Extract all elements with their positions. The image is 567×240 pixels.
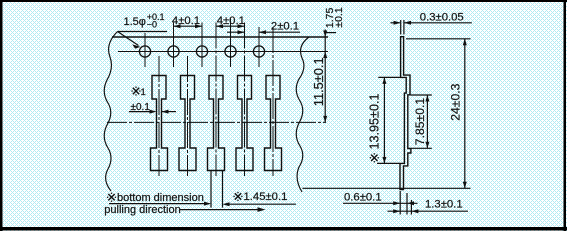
hole H3 vertical centerline (201, 23, 203, 68)
sprocket hole H3 (196, 46, 207, 57)
leader line for hole diameter 1.5φ (118, 31, 168, 33)
svg-text:11.5±0.1: 11.5±0.1 (311, 57, 326, 106)
terminal T5 vertical centerline (272, 27, 274, 176)
svg-text:13.95±0.1: 13.95±0.1 (367, 94, 381, 150)
svg-text:0.6±0.1: 0.6±0.1 (344, 191, 382, 203)
leader of 1.45±0.1 label (225, 203, 296, 205)
right dimension stack vertical line (1.75 / 11.5) (324, 30, 326, 123)
dimension 24±0.3 (406, 38, 471, 40)
terminal T4 outline (236, 76, 253, 171)
dimension 7.85±0.1 (411, 94, 432, 96)
leader of bottom dimension label (109, 203, 210, 205)
extension lines for 0.6 / 1.3 bottom dimensions (399, 191, 401, 215)
svg-text:24±0.3: 24±0.3 (448, 83, 462, 120)
svg-text:1.3±0.1: 1.3±0.1 (425, 199, 463, 211)
sprocket hole H4 (225, 46, 236, 57)
hole H2 vertical centerline (173, 23, 175, 68)
svg-text:−0: −0 (147, 20, 157, 30)
horizontal centerline through terminals (107, 121, 326, 123)
side profile of terminal (bent strip) (400, 37, 411, 190)
pulling direction arrow (180, 209, 262, 211)
terminal T2 outline (179, 76, 196, 171)
terminal T1 vertical centerline (158, 56, 160, 176)
label ※bottom dimension (107, 193, 116, 202)
svg-text:4±0.1: 4±0.1 (217, 15, 245, 27)
terminal T4 vertical centerline (244, 23, 246, 177)
dimension 4±0.1 hole pitch (between H2 and H3) (174, 25, 203, 27)
sprocket hole H2 (168, 46, 179, 57)
svg-text:0.3±0.05: 0.3±0.05 (420, 12, 464, 24)
hole H4 vertical centerline (230, 19, 232, 68)
dimension 13.95±0.1 (378, 76, 400, 78)
dimension 0.6±0.1 leader and arrows (343, 202, 418, 204)
svg-text:1: 1 (141, 87, 146, 98)
svg-text:4±0.1: 4±0.1 (172, 15, 200, 27)
terminal T5 outline (265, 76, 282, 171)
carrier tape top edge (112, 36, 328, 38)
sprocket hole centerline (horizontal) (118, 51, 328, 53)
dimension 4±0.1 terminal pitch (between T3 and T4) (216, 25, 245, 27)
sprocket hole H5 (253, 46, 264, 57)
extension lines for 0.3 thickness (400, 20, 402, 35)
svg-text:7.85±0.1: 7.85±0.1 (413, 98, 427, 146)
terminal T1 outline (151, 76, 168, 171)
dimension 2±0.1 hole-to-terminal offset (227, 31, 245, 33)
svg-text:1.45±0.1: 1.45±0.1 (244, 191, 288, 203)
dimension 1.3±0.1 leader and arrows (388, 210, 469, 212)
svg-text:pulling direction: pulling direction (104, 204, 180, 216)
label ※1.45±0.1 (233, 192, 242, 201)
svg-text:2±0.1: 2±0.1 (271, 20, 299, 32)
terminal T2 vertical centerline (187, 56, 189, 176)
terminal T3 vertical centerline (215, 23, 217, 177)
svg-text:1.5φ: 1.5φ (124, 16, 146, 28)
extension lines for bottom dimension 1.45 (terminal T3) (210, 171, 212, 208)
dimension 0.3±0.05 arrows and leader (391, 22, 400, 24)
lead width dimension ±0.1 arrows (terminal T1) (129, 111, 154, 113)
svg-text:bottom dimension: bottom dimension (117, 192, 204, 204)
right break line (zigzag tape edge) (296, 37, 309, 192)
svg-text:±0.1: ±0.1 (333, 7, 345, 28)
label ※1 (131, 86, 140, 95)
hole H1 vertical centerline (144, 33, 146, 67)
sprocket hole H1 (139, 46, 150, 57)
left break line (zigzag tape edge) (104, 32, 117, 192)
terminal T3 outline (208, 76, 225, 171)
label ※13.95±0.1 (rotated) (370, 153, 379, 162)
hole H5 vertical centerline (258, 27, 260, 67)
svg-text:±0.1: ±0.1 (131, 102, 151, 113)
